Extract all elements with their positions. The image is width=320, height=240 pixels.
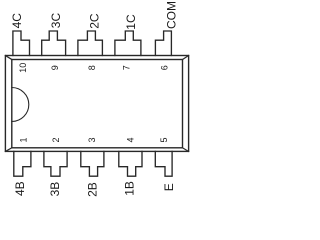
pin-1 index notch (semicircle on left edge) bbox=[12, 88, 29, 122]
svg-text:3B: 3B bbox=[48, 182, 62, 197]
svg-text:E: E bbox=[162, 183, 176, 191]
pin 10 lead (top-left, L-shaped) bbox=[13, 31, 30, 56]
svg-text:COM: COM bbox=[165, 1, 179, 29]
bevel diagonal top-left bbox=[5, 56, 11, 60]
svg-text:7: 7 bbox=[121, 65, 131, 70]
svg-text:1: 1 bbox=[19, 137, 29, 142]
svg-text:3C: 3C bbox=[49, 13, 63, 29]
svg-text:9: 9 bbox=[50, 65, 60, 70]
IC body outer outline bbox=[5, 56, 188, 152]
bevel diagonal bottom-right bbox=[183, 148, 189, 152]
svg-text:4C: 4C bbox=[10, 13, 24, 29]
pin 4 lead bbox=[119, 151, 142, 176]
svg-text:10: 10 bbox=[18, 63, 28, 73]
pin 3 lead bbox=[81, 151, 104, 176]
svg-text:4B: 4B bbox=[13, 181, 27, 196]
svg-text:5: 5 bbox=[159, 137, 169, 142]
svg-text:4: 4 bbox=[126, 137, 136, 142]
svg-text:2: 2 bbox=[51, 137, 61, 142]
IC body top face (inner outline) bbox=[12, 60, 183, 148]
pin 2 lead bbox=[44, 151, 67, 176]
bevel diagonal top-right bbox=[183, 56, 189, 60]
pin 9 lead bbox=[42, 31, 66, 56]
svg-text:2C: 2C bbox=[88, 13, 102, 29]
svg-text:8: 8 bbox=[87, 65, 97, 70]
pin 5 lead (bottom-right, L-shaped) bbox=[155, 151, 172, 176]
pin 7 lead bbox=[115, 31, 141, 56]
pin 6 lead (top-right, L-shaped) bbox=[155, 31, 171, 56]
svg-text:3: 3 bbox=[87, 137, 97, 142]
svg-text:6: 6 bbox=[160, 65, 170, 70]
pin 8 lead bbox=[78, 31, 103, 56]
svg-text:1B: 1B bbox=[123, 181, 137, 196]
pin 1 lead (bottom-left, L-shaped) bbox=[14, 151, 31, 176]
svg-text:1C: 1C bbox=[124, 14, 138, 30]
svg-text:2B: 2B bbox=[86, 182, 100, 197]
bevel diagonal bottom-left bbox=[5, 148, 11, 152]
